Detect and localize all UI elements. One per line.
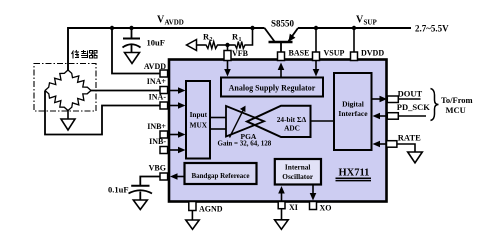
wire rail to AVDD pin (112, 28, 160, 74)
block Analog Supply Regulator (221, 78, 323, 97)
svg-text:MUX: MUX (190, 120, 208, 129)
wire INB+ pin to MUX arrow (169, 131, 186, 138)
svg-text:AVDD: AVDD (165, 19, 184, 27)
svg-text:Interface: Interface (338, 109, 368, 118)
wire regulator to BASE (arrow up) (278, 63, 285, 78)
svg-text:DOUT: DOUT (398, 89, 423, 99)
brace to MCU (431, 89, 439, 121)
wire V_SUP rail (298, 27, 411, 29)
pin INB+ box (160, 131, 168, 138)
pin AVDD box (160, 70, 168, 77)
pin PD_SCK box (387, 113, 398, 120)
resistor bridge arm left-bottom (45, 91, 68, 111)
op-amp PGA triangle (226, 106, 264, 137)
node junction on rail (10uF cap) (129, 26, 133, 30)
pin RATE box (387, 141, 397, 148)
label R2 (203, 32, 213, 44)
pin BASE box (278, 52, 285, 61)
label R1 (232, 32, 242, 44)
resistor bridge arm right-bottom (68, 91, 91, 111)
svg-text:MCU: MCU (446, 105, 466, 115)
block Input MUX (186, 81, 210, 159)
sensor box (dash-dot) (34, 64, 96, 112)
wire INB- pin to MUX arrow (169, 147, 186, 154)
svg-text:Digital: Digital (342, 100, 364, 109)
wire arrow to R2 (to AVDD) (187, 40, 206, 51)
wire XI pin to oscillator (arrow up) (278, 186, 285, 202)
node junction on VSUP rail (DVDD) (352, 26, 356, 30)
svg-text:Internal: Internal (285, 162, 311, 171)
wire DOUT out (398, 98, 420, 100)
svg-text:SUP: SUP (364, 19, 378, 27)
svg-text:XI: XI (289, 203, 298, 212)
svg-text:S8550: S8550 (271, 19, 295, 29)
svg-text:HX711: HX711 (339, 168, 370, 179)
node junction on VSUP rail (314, 26, 318, 30)
ground XI (275, 220, 289, 230)
label V_SUP (356, 15, 377, 27)
wire MUX to PGA (lower) (210, 128, 226, 130)
ground below bridge (61, 119, 75, 130)
ground AGND (186, 220, 199, 229)
wire bridge left node to INA- (45, 91, 160, 135)
svg-text:INA+: INA+ (147, 77, 167, 86)
wire PD_SCK out (398, 115, 426, 117)
capacitor C2 0.1uF (129, 186, 153, 200)
wire MUX to PGA (upper) (210, 117, 226, 119)
wire R2 to R1 (219, 44, 235, 46)
svg-text:DVDD: DVDD (361, 49, 384, 58)
svg-text:Oscillator: Oscillator (282, 172, 314, 181)
pin AGND box (189, 202, 196, 211)
wire PD_SCK into DI (arrow left) (373, 113, 388, 120)
wire oscillator to XO pin (arrow down) (310, 185, 317, 201)
svg-text:Input: Input (190, 110, 208, 119)
wire VSUP into regulator (arrow down) (313, 61, 320, 77)
wire bridge right node to INA+ (91, 90, 160, 92)
wire RATE to ground (397, 144, 415, 152)
wire XI to ground (281, 209, 283, 220)
svg-text:INB+: INB+ (147, 122, 166, 131)
svg-text:Analog Supply Regulator: Analog Supply Regulator (229, 84, 316, 93)
svg-text:AVDD: AVDD (144, 62, 166, 71)
pin VBG box (160, 173, 168, 180)
pin XI box (278, 202, 285, 209)
wire V_AVDD rail (68, 28, 265, 70)
wire bridge bottom to ground (67, 111, 69, 120)
wire RATE into DI (arrow left) (373, 141, 388, 148)
svg-text:1: 1 (239, 37, 242, 43)
svg-text:10uF: 10uF (147, 38, 165, 48)
svg-text:Gain = 32, 64, 128: Gain = 32, 64, 128 (218, 140, 272, 148)
wire DI to DOUT (arrow right) (372, 96, 388, 103)
wire VFB drop (227, 45, 229, 52)
ADC block 24-bit SigmaDelta (247, 106, 311, 137)
pin INA- box (160, 102, 168, 109)
pin VFB box (224, 51, 231, 61)
svg-text:VBG: VBG (149, 164, 166, 173)
svg-text:To/From: To/From (441, 95, 473, 105)
svg-text:XO: XO (320, 204, 332, 213)
wire bandgap to VBG pin (arrow left) (170, 173, 185, 180)
resistor bridge arm top-right (68, 70, 91, 91)
svg-text:VFB: VFB (232, 49, 249, 58)
PGA gain arrow (230, 107, 246, 138)
label V_AVDD (157, 15, 184, 27)
pin VBG external wire to C2 (140, 177, 160, 186)
svg-text:INA-: INA- (149, 93, 167, 102)
wire INA- pin to MUX arrow (169, 102, 186, 109)
block Digital Interface (334, 73, 372, 150)
label chuanganqi (sensor) (72, 50, 98, 59)
label HX711 (336, 168, 372, 181)
resistor R2 (205, 42, 219, 49)
svg-text:Bandgap Refereace: Bandgap Refereace (192, 172, 250, 180)
chip U1 HX711 body (169, 60, 387, 202)
node junction on rail (AVDD drop) (110, 26, 114, 30)
svg-text:PD_SCK: PD_SCK (397, 102, 430, 112)
resistor R1 (234, 42, 246, 49)
svg-text:INB-: INB- (149, 137, 166, 146)
pin INA+ box (160, 87, 168, 94)
node junction VFB (225, 43, 229, 47)
wire AGND to ground (191, 211, 193, 221)
wire R1 up to rail (246, 28, 253, 45)
pin VSUP box (313, 52, 320, 61)
resistor bridge arm top-left (45, 70, 68, 91)
ground below C2 (133, 200, 147, 210)
pin INB- box (160, 147, 168, 154)
svg-text:2.7~5.5V: 2.7~5.5V (415, 24, 449, 34)
wire DVDD drop (353, 28, 355, 52)
ground RATE (408, 152, 423, 163)
wire INA+ pin to MUX arrow (169, 87, 186, 94)
ground below C1 (125, 53, 140, 64)
svg-text:AGND: AGND (199, 205, 223, 214)
transistor Q1 S8550 (265, 28, 299, 52)
wire VFB into regulator (arrow down) (224, 61, 231, 77)
svg-text:2: 2 (210, 37, 213, 43)
wire VSUP drop (315, 28, 317, 52)
svg-text:BASE: BASE (289, 49, 310, 58)
pin DOUT box (387, 96, 398, 103)
svg-text:ADC: ADC (284, 123, 300, 132)
svg-text:RATE: RATE (398, 133, 421, 143)
capacitor C1 10uF (123, 28, 141, 53)
block Internal Oscillator (275, 159, 321, 185)
wire ADC to Digital Interface (311, 120, 335, 122)
pin XO box (310, 202, 317, 210)
block Bandgap Reference (185, 163, 257, 184)
node junction on rail (R1 drop) (250, 26, 254, 30)
svg-text:0.1uF: 0.1uF (108, 185, 129, 195)
svg-text:VSUP: VSUP (324, 49, 345, 58)
pin DVDD box (351, 52, 358, 61)
